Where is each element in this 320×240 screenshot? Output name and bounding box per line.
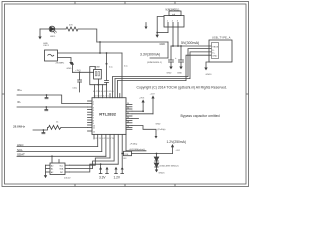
power +3V3 arrow right of IC bbox=[142, 103, 144, 112]
wire rail down to IC top pin bbox=[121, 53, 123, 98]
svg-text:0.1u: 0.1u bbox=[109, 67, 113, 69]
svg-text:GND1: GND1 bbox=[159, 172, 166, 174]
svg-text:GND: GND bbox=[160, 43, 166, 46]
node junction bbox=[46, 94, 48, 96]
svg-text:A0: A0 bbox=[51, 164, 53, 167]
wire bbox=[55, 28, 66, 30]
wire right pin short stub bbox=[132, 117, 139, 119]
svg-text:28.8MHz: 28.8MHz bbox=[56, 63, 65, 65]
node junction bbox=[79, 71, 81, 73]
svg-text:D-: D- bbox=[212, 50, 215, 52]
EEPROM right pins bbox=[65, 165, 70, 172]
LED D1 bbox=[49, 26, 57, 33]
node junction bbox=[99, 41, 101, 43]
USB pin strip bbox=[212, 43, 219, 59]
svg-text:12: 12 bbox=[93, 131, 95, 133]
node junction bbox=[156, 153, 158, 155]
wire xtal feeds into IC bbox=[95, 85, 107, 98]
IC U1 RTL2832 body bbox=[92, 98, 126, 135]
wire GND nested bbox=[117, 55, 211, 80]
diode D3 bbox=[154, 161, 158, 170]
power arrow 1.2V bbox=[172, 147, 174, 153]
EEPROM U3 body bbox=[50, 163, 65, 175]
svg-text:3.3V(300mA): 3.3V(300mA) bbox=[140, 53, 160, 57]
oscillator X1 body bbox=[45, 50, 58, 61]
svg-text:IF+: IF+ bbox=[18, 88, 23, 92]
capacitor C1 to ground bbox=[169, 46, 174, 67]
wire right pin to +1V2 bbox=[132, 113, 153, 115]
svg-text:+3V3: +3V3 bbox=[75, 70, 81, 72]
crystal mark bbox=[48, 54, 55, 56]
svg-text:Copyright (C) 2014 TOCHI (gdto: Copyright (C) 2014 TOCHI (gdtoshi.nl) Al… bbox=[137, 85, 227, 89]
IC right pin numbers bbox=[127, 103, 129, 128]
node junction bbox=[51, 155, 53, 157]
svg-text:A2: A2 bbox=[51, 171, 53, 174]
wire D+ nested bbox=[115, 52, 211, 79]
wire feed to 22R bbox=[122, 153, 123, 155]
ground GND at regulator bbox=[156, 35, 159, 38]
svg-text:1 2 8 4 0 9 3 2 6 5: 1 2 8 4 0 9 3 2 6 5 bbox=[94, 96, 109, 98]
wire xtal left rail bbox=[73, 71, 94, 73]
wire crystal bottom pin bbox=[97, 79, 99, 85]
wire stair 2 bbox=[70, 161, 115, 169]
wire SDAT bbox=[17, 155, 106, 157]
wire AGC bbox=[17, 146, 98, 148]
ground bbox=[179, 67, 182, 70]
svg-text:RTL2832: RTL2832 bbox=[99, 112, 116, 117]
svg-text:LED1: LED1 bbox=[50, 36, 56, 38]
svg-text:22R: 22R bbox=[124, 154, 128, 156]
wire to IC bbox=[61, 126, 88, 128]
USB connector J1 body bbox=[209, 40, 232, 62]
capacitor on 3V3 drop bbox=[105, 53, 109, 85]
svg-text:GND1: GND1 bbox=[206, 74, 213, 76]
svg-text:GND: GND bbox=[156, 124, 161, 126]
svg-text:(PullUp): (PullUp) bbox=[158, 129, 166, 131]
svg-text:SCL: SCL bbox=[60, 165, 64, 167]
svg-text:1.2V: 1.2V bbox=[114, 176, 121, 180]
border zone ticks bbox=[2, 2, 249, 187]
svg-text:32: 32 bbox=[127, 112, 129, 114]
wire stair 1 bbox=[70, 158, 111, 165]
svg-text:A1: A1 bbox=[51, 168, 53, 171]
svg-text:USB_TYPE_A: USB_TYPE_A bbox=[212, 37, 231, 40]
svg-text:0.1u: 0.1u bbox=[124, 66, 128, 68]
wire pin2 down bbox=[172, 27, 174, 46]
wire pin3 down bbox=[177, 27, 179, 46]
ground GND at LED cathode bbox=[39, 29, 41, 37]
svg-text:21 22 23 24 25 26 27 28: 21 22 23 24 25 26 27 28 bbox=[94, 138, 115, 140]
svg-text:(NJM2845DL1): (NJM2845DL1) bbox=[147, 62, 162, 64]
node junction bbox=[98, 84, 100, 86]
node junction bbox=[142, 110, 144, 112]
svg-text:(1N4148W SMDx2): (1N4148W SMDx2) bbox=[160, 165, 179, 167]
sheet outer border bbox=[2, 2, 249, 187]
IC right pins bbox=[126, 105, 132, 130]
sheet inner border bbox=[5, 4, 247, 184]
svg-text:+PullUp: +PullUp bbox=[130, 144, 139, 146]
wire +5V(USB) stub bbox=[126, 150, 146, 152]
regulator pin marks bbox=[168, 22, 178, 27]
EEPROM top pins bbox=[52, 157, 59, 163]
node junction bbox=[106, 52, 108, 54]
resistor R3 22R box bbox=[124, 151, 132, 155]
IC left pin numbers bbox=[93, 101, 95, 133]
resistor R1 bbox=[66, 27, 78, 31]
wire USB shield to ground bbox=[206, 62, 209, 68]
svg-text:+1V2: +1V2 bbox=[176, 150, 180, 152]
wire right pin to +3V3 bbox=[132, 110, 143, 112]
svg-text:34: 34 bbox=[127, 108, 129, 110]
wire 3V3 output stub bbox=[150, 57, 168, 59]
wire right pin w3 to gnd bbox=[132, 126, 156, 137]
svg-text:GND: GND bbox=[177, 73, 182, 75]
svg-text:11: 11 bbox=[93, 128, 95, 130]
power +3V3 arrow xtal bbox=[72, 65, 74, 73]
resistor R2 bbox=[49, 125, 62, 129]
wire osc gnd bbox=[58, 58, 72, 63]
svg-text:24C02: 24C02 bbox=[64, 178, 71, 180]
svg-text:+5V(USB(white)): +5V(USB(white)) bbox=[129, 148, 146, 151]
wire 5V rail bbox=[171, 45, 211, 47]
svg-text:28: 28 bbox=[127, 121, 129, 123]
regulator U2 body bbox=[164, 16, 184, 28]
svg-text:2: 2 bbox=[93, 104, 94, 106]
node junction bbox=[121, 153, 123, 155]
wire 3V3 tap drop bbox=[167, 42, 169, 58]
diode D2 bbox=[154, 154, 158, 162]
svg-text:VBUS: VBUS bbox=[212, 46, 218, 48]
wire D- nested bbox=[113, 49, 211, 77]
svg-text:3.3V: 3.3V bbox=[99, 176, 106, 180]
wire 22R out bbox=[132, 153, 173, 155]
ground GND1 bbox=[204, 68, 207, 71]
wire bbox=[78, 29, 97, 42]
svg-text:30: 30 bbox=[127, 117, 129, 119]
ground bbox=[69, 62, 72, 65]
wire osc vcc/out rail bbox=[58, 52, 123, 54]
EEPROM left pins bbox=[46, 165, 51, 175]
svg-text:GND: GND bbox=[212, 55, 217, 57]
svg-text:5V(300mA): 5V(300mA) bbox=[181, 41, 199, 45]
power +1V2 arrow right of IC bbox=[152, 99, 154, 114]
power arrow symbol bbox=[145, 23, 147, 27]
node junction bbox=[45, 106, 47, 108]
wire pin1 down to rails bbox=[167, 27, 169, 33]
node junction bbox=[177, 45, 179, 47]
IC bottom pins bbox=[94, 134, 126, 164]
wire crystal top loop bbox=[90, 67, 107, 85]
svg-text:GND: GND bbox=[167, 73, 172, 75]
wire 3V3 rail to regulator bbox=[97, 41, 168, 43]
svg-text:36: 36 bbox=[127, 103, 129, 105]
node junction bbox=[43, 129, 45, 131]
svg-text:28.8MHz: 28.8MHz bbox=[13, 124, 26, 128]
ground bbox=[169, 67, 172, 70]
wire 1.2V leg up to 22R feed bbox=[121, 154, 123, 167]
node junction bbox=[106, 63, 108, 65]
IC left pins bbox=[88, 101, 93, 131]
svg-text:+1V2: +1V2 bbox=[150, 94, 156, 96]
capacitor C2 polarized to ground bbox=[179, 46, 184, 67]
ground EEPROM bbox=[44, 175, 47, 178]
svg-text:GND: GND bbox=[67, 68, 72, 70]
IC top pins bbox=[110, 77, 120, 98]
node junction bbox=[100, 163, 102, 165]
wire pin1 jog bbox=[157, 32, 168, 34]
wire IF- bbox=[17, 106, 88, 108]
ground small bbox=[155, 136, 158, 139]
wire 28.8MHz bbox=[33, 127, 49, 130]
capacitor C6 bbox=[78, 72, 82, 92]
svg-text:1.2V(250mA): 1.2V(250mA) bbox=[167, 140, 186, 144]
wire SCL bbox=[17, 151, 102, 153]
wire 3V3 drop to osc rail bbox=[99, 42, 101, 53]
node junction bbox=[99, 52, 101, 54]
ground bbox=[155, 170, 158, 173]
wire bbox=[40, 28, 49, 30]
svg-text:26: 26 bbox=[127, 126, 129, 128]
capacitor stub IF- bbox=[45, 107, 48, 111]
svg-text:IF-: IF- bbox=[18, 100, 22, 104]
svg-text:48 47 46 45 44 43 42 41: 48 47 46 45 44 43 42 41 bbox=[93, 91, 114, 93]
capacitor stub IF+ bbox=[45, 95, 48, 99]
EEPROM pin texts bbox=[51, 164, 64, 173]
node junction bbox=[156, 32, 158, 34]
svg-text:Bypass capacitor omitted: Bypass capacitor omitted bbox=[181, 114, 220, 118]
svg-text:OSC1: OSC1 bbox=[43, 45, 50, 47]
crystal X1 body bbox=[94, 69, 102, 79]
power flag 3.3V pair bbox=[99, 164, 108, 173]
capacitor stub xtal in bbox=[42, 130, 45, 134]
power flag 1.2V pair bbox=[115, 169, 124, 174]
node junction bbox=[172, 45, 174, 47]
svg-text:+3V3: +3V3 bbox=[139, 97, 145, 99]
wire IF+ bbox=[17, 95, 88, 104]
wire stair 3 bbox=[70, 164, 119, 172]
regulator tab bbox=[169, 11, 181, 16]
svg-text:0.01u: 0.01u bbox=[73, 88, 78, 90]
wire regulator left tab feed bbox=[157, 17, 164, 35]
